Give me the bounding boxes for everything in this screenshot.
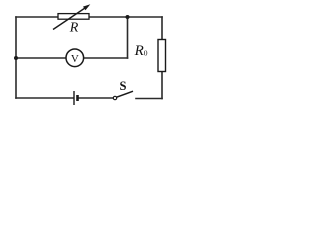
svg-text:V: V: [71, 53, 79, 65]
svg-text:S: S: [120, 79, 127, 93]
svg-text:R: R: [69, 21, 79, 36]
svg-text:R0: R0: [134, 43, 148, 59]
